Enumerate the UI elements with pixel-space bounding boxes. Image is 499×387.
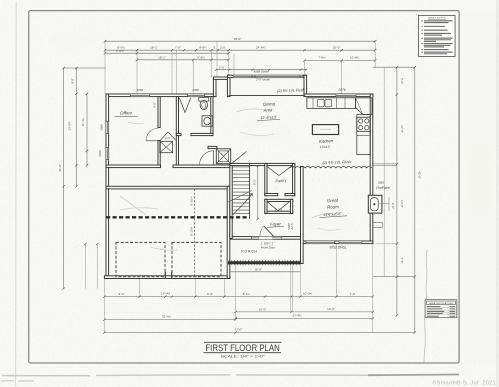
- kitchen top counter: [307, 98, 356, 109]
- svg-text:Foyer: Foyer: [270, 221, 282, 227]
- svg-text:4'-0": 4'-0": [153, 102, 157, 108]
- stair treads: [232, 167, 249, 214]
- left dimension line 2: [75, 68, 77, 187]
- garage bottom wall: [104, 276, 229, 279]
- svg-text:3068: 3068: [98, 150, 102, 157]
- svg-text:3068: 3068: [100, 124, 104, 131]
- svg-text:2'-0½: 2'-0½: [275, 208, 283, 212]
- bath sink: [202, 116, 213, 126]
- page border frame: [29, 11, 459, 363]
- title block: FIRST FLOOR PLAN: [204, 341, 282, 343]
- right extension line a: [383, 67, 385, 276]
- svg-text:9'-0": 9'-0": [119, 292, 125, 296]
- hearth box: [373, 222, 382, 227]
- svg-text:13'-0½: 13'-0½: [68, 121, 72, 131]
- bottom extension lines: [104, 244, 372, 333]
- faint mottling: [48, 31, 492, 308]
- right connector at great room corner: [375, 243, 397, 245]
- svg-text:3052 DHSL: 3052 DHSL: [329, 246, 347, 250]
- svg-text:Area: Area: [262, 107, 273, 113]
- heavy dashed flush beam across garage: [106, 216, 249, 218]
- svg-text:17'-6": 17'-6": [400, 125, 404, 133]
- svg-text:2'-0: 2'-0: [220, 45, 225, 49]
- svg-text:31'-4¾: 31'-4¾: [162, 315, 172, 319]
- right dimension line inner: [396, 67, 398, 315]
- fireplace: [368, 195, 382, 213]
- foyer closet walls: [265, 199, 293, 201]
- svg-text:7'-0": 7'-0": [175, 46, 181, 50]
- left dimension line 41'-0": [63, 68, 65, 289]
- right dims top connector: [373, 66, 415, 68]
- left dimension line 3: [86, 94, 88, 166]
- fireplace dim leader: [378, 197, 389, 211]
- svg-text:5'-0": 5'-0": [400, 78, 404, 84]
- kitchen right counter: [357, 115, 371, 155]
- hall top wall right part: [173, 165, 230, 168]
- svg-text:13'-0": 13'-0": [400, 200, 404, 208]
- nook window dimension line: [216, 69, 306, 71]
- top extension lines: [105, 41, 375, 96]
- garage top wall: [106, 186, 230, 189]
- scan left paper edge: [15, 2, 18, 386]
- garage door center jambs: [165, 272, 171, 279]
- garage door dashed box 2: [172, 242, 221, 276]
- exterior wall top-left (office/bath): [106, 94, 216, 97]
- area calculations table: [425, 300, 457, 318]
- windows left wall: [106, 121, 108, 133]
- nook slider windows: [233, 75, 303, 77]
- kitchen window: [336, 94, 356, 96]
- kitchen sink: [318, 99, 325, 106]
- front door leaf and swing: [259, 237, 273, 240]
- scan bottom-left smudge: [1, 380, 34, 383]
- great room left wall: [301, 167, 304, 264]
- kitchen corner counter: [356, 98, 373, 115]
- foyer closet bifold doors: [267, 202, 289, 211]
- svg-text:Dining: Dining: [263, 101, 276, 107]
- stair hall dim line: [257, 166, 259, 219]
- svg-text:18'-1": 18'-1": [150, 46, 158, 50]
- office right wall lower: [158, 141, 160, 166]
- hall/stairs top wall: [230, 163, 295, 165]
- svg-text:57'-0": 57'-0": [235, 328, 243, 332]
- svg-text:8'-0": 8'-0": [70, 78, 74, 84]
- counter divider lines: [313, 98, 345, 109]
- kitchen top wall: [304, 94, 373, 97]
- top dimension line row 2: [105, 49, 375, 51]
- svg-text:41'-0": 41'-0": [58, 164, 62, 172]
- sheet notes box: [419, 15, 456, 56]
- nook right wall: [304, 75, 307, 96]
- porch column extension double: [291, 263, 293, 312]
- top dimension line row 3 short: [105, 52, 229, 54]
- dining door leaf: [233, 152, 247, 163]
- svg-text:©SmartHB S. Jur 2021: ©SmartHB S. Jur 2021: [432, 380, 496, 387]
- pantry left wall: [265, 163, 267, 195]
- svg-text:58'-0": 58'-0": [234, 37, 242, 41]
- hall door arc: [200, 151, 214, 165]
- range: [357, 117, 370, 131]
- pantry right wall: [293, 163, 295, 195]
- right connector at wall step: [373, 164, 397, 166]
- top dimension line row 4 right: [305, 60, 376, 62]
- top dimension line 58'-0": [105, 40, 375, 42]
- right connector under porch row: [373, 276, 415, 278]
- hall top wall (office bottom) left part: [106, 165, 161, 168]
- svg-text:11'-4¾: 11'-4¾: [81, 117, 85, 126]
- bottom dim row B right lower 27'-4: [236, 317, 373, 319]
- svg-text:9'-6¼: 9'-6¼: [199, 45, 207, 49]
- svg-text:2076: 2076: [337, 88, 345, 92]
- svg-text:7'-6¾: 7'-6¾: [318, 56, 326, 60]
- wall connector at step: [213, 77, 228, 79]
- svg-text:Room: Room: [327, 204, 339, 210]
- bottom dim row B right upper: [236, 311, 373, 313]
- svg-text:7'-0": 7'-0": [350, 292, 356, 296]
- svg-text:2'-0: 2'-0: [219, 65, 224, 69]
- dining flush beam line: [229, 94, 306, 96]
- scan crease wavy line: [424, 250, 427, 363]
- scalloped beam line kitchen/great room: [290, 167, 372, 168]
- scan specks: [69, 68, 424, 339]
- svg-text:18'-1": 18'-1": [158, 55, 166, 59]
- nook top wall with sliders: [227, 75, 306, 77]
- office right wall upper: [158, 97, 160, 128]
- right dimension line outer 41'-0": [414, 67, 416, 332]
- svg-text:2'-0" center: 2'-0" center: [255, 77, 271, 81]
- bottom dim row A: [104, 296, 372, 298]
- svg-text:13'x13': 13'x13': [320, 145, 331, 149]
- linen closet box with X: [160, 141, 173, 152]
- foyer front wall: [227, 237, 300, 240]
- svg-text:13'-4½: 13'-4½: [161, 291, 171, 295]
- svg-text:2'-0": 2'-0": [391, 203, 395, 209]
- svg-text:Arch: Arch: [290, 223, 294, 230]
- right margin tint: [460, 11, 497, 363]
- chimney box with X: [216, 149, 230, 164]
- svg-text:FirePlace: FirePlace: [376, 186, 390, 190]
- svg-text:Gas: Gas: [378, 181, 384, 185]
- svg-text:10'-0": 10'-0": [259, 307, 267, 311]
- svg-text:10'-0¾: 10'-0¾: [303, 292, 313, 296]
- sheet notes fake text lines: [422, 21, 453, 54]
- svg-text:Great: Great: [327, 198, 339, 204]
- svg-text:PORCH: PORCH: [241, 249, 257, 253]
- linen bifold doors: [160, 132, 175, 140]
- garage door dashed box 1: [116, 242, 165, 276]
- bath right wall: [211, 97, 213, 136]
- scan right paper edge: [496, 0, 498, 387]
- svg-text:24'-6¼": 24'-6¼": [256, 46, 266, 50]
- svg-text:15'-0": 15'-0": [333, 46, 341, 50]
- pencil scribbles: [120, 109, 340, 230]
- bath bottom wall segments: [176, 133, 181, 135]
- left dims top connector: [64, 67, 106, 69]
- svg-text:3068: 3068: [136, 88, 143, 92]
- bottom dim row C 57'-0": [104, 332, 414, 334]
- svg-text:9068 Slider: 9068 Slider: [253, 69, 269, 73]
- window top wall bath: [188, 94, 205, 96]
- foyer window left: [251, 237, 259, 239]
- top dimension line row 4 left: [137, 59, 229, 61]
- svg-text:6'-0½: 6'-0½: [116, 49, 124, 53]
- svg-text:8'-1¼: 8'-1¼: [243, 292, 251, 296]
- bath left wall: [176, 97, 178, 165]
- exterior wall right: [370, 94, 373, 244]
- stair left wall: [230, 163, 232, 238]
- porch depth dim 18'-0": [231, 271, 301, 273]
- svg-text:5'-10⅞: 5'-10⅞: [190, 196, 194, 206]
- svg-text:Office: Office: [120, 110, 133, 116]
- svg-text:9'-0": 9'-0": [207, 292, 213, 296]
- hall stub wall near chimney: [208, 146, 217, 148]
- svg-text:3068: 3068: [192, 88, 199, 92]
- kitchen island: [312, 125, 338, 135]
- svg-text:Kitchen: Kitchen: [319, 138, 334, 144]
- great room bottom window 2: [339, 241, 362, 243]
- svg-text:2'-0: 2'-0: [165, 136, 170, 140]
- svg-text:10'-0¼: 10'-0¼: [350, 56, 360, 60]
- svg-text:5'-8": 5'-8": [400, 258, 404, 264]
- garage right wall: [227, 186, 230, 278]
- svg-text:18'-0": 18'-0": [254, 267, 262, 271]
- garage column dashed line: [194, 189, 196, 276]
- svg-text:FIRST FLOOR PLAN: FIRST FLOOR PLAN: [205, 343, 280, 353]
- porch step hatch band: [228, 261, 301, 264]
- svg-text:8'-0": 8'-0": [252, 179, 256, 185]
- pantry bifold doors: [266, 166, 292, 176]
- wall step up to nook: [213, 77, 216, 97]
- svg-text:9'-6½: 9'-6½: [197, 55, 205, 59]
- nook left wall: [227, 75, 230, 96]
- svg-text:AREA CALCULATIONS: AREA CALCULATIONS: [429, 302, 453, 305]
- svg-text:SCALE: 1/4" = 1'-0": SCALE: 1/4" = 1'-0": [221, 355, 266, 359]
- exterior wall left: [106, 94, 109, 279]
- office door arc: [146, 128, 159, 141]
- svg-text:27'-4½: 27'-4½: [292, 314, 302, 318]
- window top wall office: [130, 94, 149, 96]
- great room bottom wall: [301, 241, 373, 244]
- svg-text:5'-10⅞: 5'-10⅞: [190, 226, 194, 236]
- stair right edge: [249, 163, 251, 219]
- scan bottom streak: [2, 374, 368, 377]
- stair up arrow: [233, 194, 253, 215]
- svg-text:41'-0": 41'-0": [417, 171, 421, 179]
- svg-text:14'-0": 14'-0": [327, 307, 335, 311]
- left short extension lines near garage: [85, 244, 97, 289]
- bath double door swing: [179, 98, 190, 113]
- svg-text:Pantry: Pantry: [275, 179, 287, 184]
- svg-text:Front Door: Front Door: [261, 246, 276, 250]
- toilet: [199, 98, 209, 102]
- foyer window right: [273, 237, 282, 239]
- pencil strokes in garage: [120, 196, 177, 250]
- stair second diagonal: [227, 191, 252, 203]
- bottom dim row B left 31'-4: [104, 319, 235, 321]
- pantry bottom wall: [265, 194, 278, 196]
- great room bottom window 1: [306, 241, 334, 243]
